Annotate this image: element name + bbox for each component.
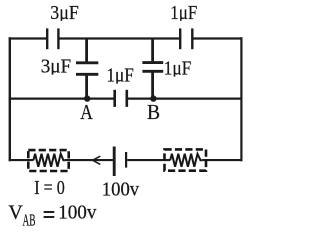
wire middle left segment (A row) xyxy=(9,97,114,99)
svg-text:3μF: 3μF xyxy=(41,56,71,78)
wire branch2 upper xyxy=(151,38,154,62)
label C2 value 1uF xyxy=(170,2,197,24)
label C3 value 3uF xyxy=(41,56,71,78)
svg-text:3μF: 3μF xyxy=(50,2,79,24)
svg-text:B: B xyxy=(147,100,160,124)
svg-text:V: V xyxy=(8,202,23,224)
svg-text:A: A xyxy=(80,100,93,124)
wire bottom segment 3 xyxy=(127,159,170,161)
node A junction dot xyxy=(84,95,90,101)
capacitor C3 3uF (left vertical branch) xyxy=(76,63,98,75)
label equation V_AB = 100v xyxy=(8,202,97,230)
label C1 value 3uF xyxy=(50,2,79,24)
wire middle right segment (B row) xyxy=(128,97,242,99)
wire bottom segment 1 xyxy=(9,159,34,161)
capacitor C4 1uF (right vertical branch) xyxy=(142,63,163,72)
svg-text:100v: 100v xyxy=(102,179,140,201)
label C4 value 1uF xyxy=(164,58,192,80)
wire top middle segment xyxy=(60,37,180,39)
svg-text:I = 0: I = 0 xyxy=(34,177,65,199)
wire top right segment xyxy=(193,37,242,39)
resistor R2 (right, in dashed box) xyxy=(165,149,207,170)
wire left vertical xyxy=(9,37,11,161)
wire branch1 lower xyxy=(85,76,88,99)
wire bottom segment 2 (arrow span) xyxy=(65,159,113,161)
label C5 value 1uF xyxy=(106,65,133,87)
svg-text:1μF: 1μF xyxy=(170,2,197,24)
wire branch1 upper xyxy=(85,38,88,62)
wire branch2 lower xyxy=(151,73,154,99)
wire right vertical xyxy=(240,37,242,161)
battery V1 100v xyxy=(114,147,126,177)
capacitor C1 3uF (top left) xyxy=(47,28,58,49)
capacitor C2 1uF (top right) xyxy=(180,28,192,49)
resistor R1 (left, in dashed box) xyxy=(28,150,68,171)
node B junction dot xyxy=(150,95,156,101)
svg-text:100v: 100v xyxy=(58,202,97,224)
current arrow (pointing left) xyxy=(93,156,101,164)
capacitor C5 1uF (between A and B) xyxy=(115,90,127,107)
svg-text:1μF: 1μF xyxy=(106,65,133,87)
wire top left segment xyxy=(9,37,46,39)
svg-text:1μF: 1μF xyxy=(164,58,192,80)
svg-text:AB: AB xyxy=(23,211,36,230)
wire bottom segment 4 xyxy=(202,159,242,161)
